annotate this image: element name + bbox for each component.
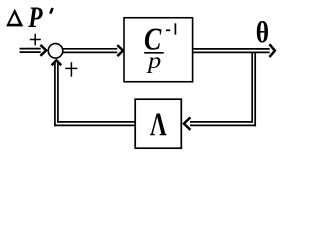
svg-text:θ: θ — [256, 16, 269, 49]
wire: feedback horizontal (left of block Λ) — [54, 122, 135, 126]
arrowhead into summing junction (left) — [40, 45, 46, 56]
summing junction circle — [48, 44, 63, 59]
block U2 rectangle — [135, 99, 181, 148]
wire: branch down (right vertical double line) — [252, 52, 255, 126]
block U1 fraction bar — [144, 52, 164, 54]
wire: output double line from block C — [193, 49, 269, 53]
block U1 exponent -1 (one) — [174, 23, 176, 34]
wire: junction to block C (double line) — [63, 49, 117, 53]
arrowhead into block Λ (pointing left) — [184, 117, 191, 130]
arrowhead output (far right) — [269, 44, 275, 57]
svg-text:p: p — [146, 49, 161, 74]
label ΔP' : prime mark — [50, 8, 52, 14]
svg-text:P: P — [27, 0, 43, 33]
wire: feedback horizontal (right of block Λ) — [190, 122, 256, 126]
plus sign (feedback, below-right of junction) — [65, 62, 77, 76]
block U1 exponent -1 (dash) — [166, 29, 170, 31]
arrowhead into summing junction (bottom, pointing up) — [52, 60, 62, 65]
wire: input double line — [20, 49, 41, 53]
plus sign (input, above arrow) — [30, 34, 41, 46]
block U1 rectangle — [124, 18, 193, 82]
arrowhead into block C — [117, 45, 123, 56]
label ΔP' : delta glyph (outline triangle) — [6, 9, 23, 27]
svg-text:Λ: Λ — [150, 107, 167, 143]
wire: feedback left vertical double line — [55, 61, 58, 126]
